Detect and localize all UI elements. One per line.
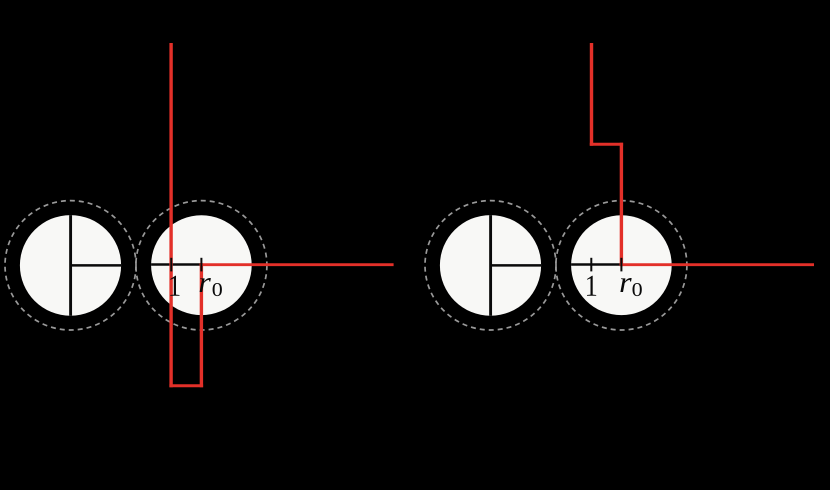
right diagram: horizontal radius of left disc [491, 264, 542, 267]
left diagram: red curve, outer vertical branch at r=1 [169, 43, 172, 387]
left diagram: tick at r0 [200, 258, 202, 272]
right diagram: left white disc [440, 215, 541, 316]
left diagram: red curve, horizontal branch along axis [200, 263, 394, 266]
right diagram: radial axis segment in right disc [571, 263, 621, 266]
left diagram: vertical diameter of left disc [69, 215, 72, 316]
right diagram: label 1 [587, 276, 596, 296]
right diagram: label r0 [620, 278, 631, 292]
right diagram: tick at r=1 [590, 258, 592, 272]
left diagram: radial axis segment in right disc [151, 263, 201, 266]
left diagram: red curve, rising branch at r0 [200, 263, 203, 387]
left diagram: tick at r=1 [170, 258, 172, 272]
left diagram: right white disc [151, 215, 252, 315]
left diagram: red curve, square-well bottom [169, 384, 203, 387]
right diagram: vertical diameter of left disc [489, 215, 492, 316]
right diagram: tick at r0 [620, 258, 622, 272]
left diagram: dashed circle around right disc [136, 201, 267, 330]
left diagram: horizontal radius of left disc [71, 264, 122, 267]
left diagram: dashed circle around left disc [5, 201, 136, 330]
right diagram: right white disc [571, 215, 672, 315]
right diagram: dashed circle around left disc [425, 201, 556, 330]
right diagram: red curve, upper vertical branch at r=1 [590, 43, 593, 146]
right diagram: dashed circle around right disc [556, 201, 687, 330]
left diagram: label 1 [170, 276, 179, 296]
right diagram: red curve, horizontal step [590, 143, 623, 146]
right diagram: red curve, vertical branch at r0 [620, 143, 623, 266]
left diagram: label r0 [200, 278, 211, 292]
left diagram: left white disc [20, 215, 121, 316]
right diagram: red curve, horizontal branch along axis [620, 263, 814, 266]
